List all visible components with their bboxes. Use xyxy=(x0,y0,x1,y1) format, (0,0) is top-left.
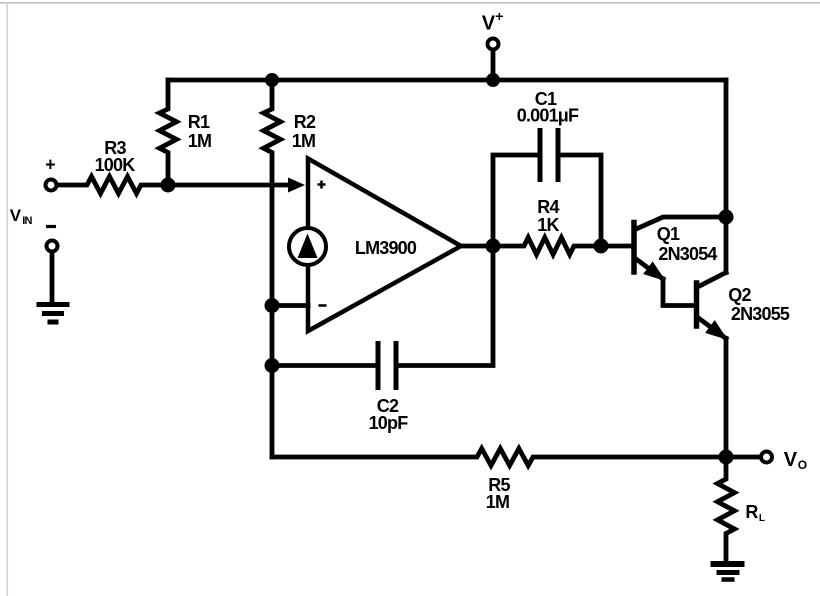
wire: noninverting input wire xyxy=(168,183,291,188)
svg-text:1M: 1M xyxy=(486,492,509,512)
svg-text:R: R xyxy=(745,502,758,522)
label minus terminal xyxy=(46,225,56,228)
svg-text:O: O xyxy=(798,458,807,472)
svg-text:2N3054: 2N3054 xyxy=(658,244,717,264)
scan edge artifacts (decorative) xyxy=(0,2,820,4)
wire: top supply rail xyxy=(168,78,726,83)
resistor R3 xyxy=(58,177,168,194)
ground input xyxy=(37,305,70,323)
capacitor C2 xyxy=(378,344,396,388)
transistor Q1 xyxy=(634,217,726,306)
svg-text:R2: R2 xyxy=(294,112,316,132)
svg-text:100K: 100K xyxy=(95,155,136,175)
wire: C1 loop right xyxy=(561,155,602,246)
label Q2 xyxy=(728,285,790,324)
svg-text:V: V xyxy=(482,13,496,35)
wire: inverting input wire xyxy=(272,303,308,308)
svg-text:+: + xyxy=(495,8,503,24)
resistor R5 xyxy=(272,449,726,466)
node dot inverting input xyxy=(265,298,280,313)
label R2 value xyxy=(292,112,316,151)
capacitor C1 xyxy=(540,131,558,180)
resistor R1 xyxy=(160,80,177,185)
svg-text:1M: 1M xyxy=(292,131,315,151)
resistor R2 xyxy=(264,80,281,185)
svg-text:R4: R4 xyxy=(537,197,559,217)
arrowhead into + input xyxy=(288,178,305,193)
label Vin xyxy=(10,206,33,227)
label R4 value xyxy=(537,197,559,235)
label R3 value xyxy=(95,138,136,175)
node dot rail/V+ xyxy=(486,73,500,87)
svg-text:1K: 1K xyxy=(537,215,559,235)
svg-text:1M: 1M xyxy=(188,131,211,151)
svg-text:0.001μF: 0.001μF xyxy=(517,106,579,126)
label V+ xyxy=(482,8,504,35)
svg-text:R1: R1 xyxy=(188,112,210,132)
node dot op-amp output xyxy=(486,239,501,254)
label Vo xyxy=(784,449,807,472)
wire: C2 right lead xyxy=(399,246,494,366)
wire: left vertical line from R2 down to feedback corner xyxy=(270,185,275,457)
wire: V+ stem xyxy=(491,51,496,80)
wire: input minus stem xyxy=(50,253,55,301)
svg-text:IN: IN xyxy=(22,215,32,227)
wire: C2 branch left lead xyxy=(272,363,376,368)
op-amp - input marker xyxy=(319,304,327,307)
arrowhead Q1 emitter xyxy=(645,263,664,279)
svg-text:+: + xyxy=(45,155,55,175)
node dot rail/R2 xyxy=(265,73,279,87)
label R5 value xyxy=(486,475,511,512)
terminal: V+ xyxy=(488,39,499,50)
label RL xyxy=(745,502,764,524)
resistor RL xyxy=(718,457,735,562)
arrowhead Q2 emitter xyxy=(707,322,726,338)
label C1 value xyxy=(517,89,579,126)
label Q1 xyxy=(657,224,718,264)
node dot output xyxy=(719,450,734,465)
node dot R3/R1 junction xyxy=(161,178,176,193)
op-amp + input marker xyxy=(318,181,326,189)
current source symbol inside op-amp xyxy=(289,228,326,265)
svg-text:2N3055: 2N3055 xyxy=(731,304,790,324)
svg-text:10pF: 10pF xyxy=(369,413,409,433)
node dot Q1 collector xyxy=(719,210,734,225)
svg-text:Q1: Q1 xyxy=(657,224,680,244)
wire: op-amp output to R4 xyxy=(461,244,493,249)
svg-text:L: L xyxy=(759,513,765,524)
svg-text:Q2: Q2 xyxy=(728,285,751,305)
ground RL xyxy=(711,564,745,580)
label R1 value xyxy=(188,112,211,151)
node dot C2 branch xyxy=(265,358,280,373)
transistor Q2 xyxy=(697,217,727,457)
svg-text:LM3900: LM3900 xyxy=(355,238,417,258)
wire: C1 loop left xyxy=(493,155,537,246)
resistor R4 xyxy=(493,238,601,255)
svg-text:V: V xyxy=(784,449,798,471)
node dot R4/C1 right xyxy=(594,239,609,254)
op-amp U1 LM3900 xyxy=(308,159,461,332)
wire: output node to Vo terminal xyxy=(726,455,759,460)
terminal: Vin minus xyxy=(47,241,58,252)
terminal: Vin plus xyxy=(46,180,57,191)
terminal: Vo xyxy=(761,452,772,463)
wire: right vertical rail from rail corner down to Q1 collector node xyxy=(724,80,729,217)
label C2 value xyxy=(369,396,409,433)
svg-text:V: V xyxy=(10,206,22,225)
wire: R4 to Q1 base xyxy=(601,244,632,249)
